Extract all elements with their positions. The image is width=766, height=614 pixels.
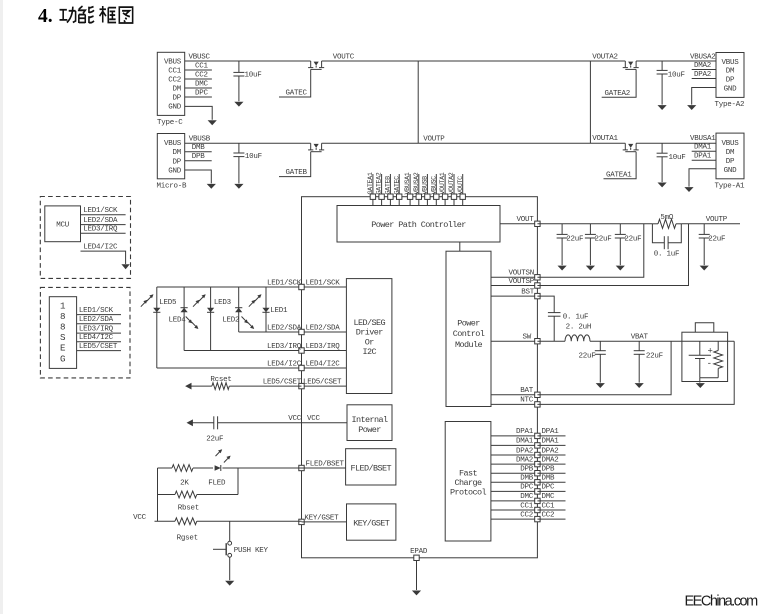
svg-text:VBUSA1: VBUSA1 (690, 135, 716, 143)
wire PPC to Power Control link (459, 242, 461, 251)
svg-text:DMA2: DMA2 (542, 456, 559, 464)
block MCU (45, 206, 81, 242)
net stub DMA2 external (537, 463, 565, 465)
svg-text:DPC: DPC (542, 484, 556, 492)
svg-text:DPC: DPC (195, 89, 209, 97)
svg-text:DMA1: DMA1 (542, 438, 560, 446)
node junction VOUTP vertical (417, 61, 419, 143)
wire DMC internal (491, 500, 538, 502)
pin CC1 (right) (535, 507, 540, 512)
wire CC1 internal (491, 509, 538, 511)
svg-text:DP: DP (172, 95, 181, 103)
svg-text:Type-C: Type-C (157, 119, 183, 127)
pin VOUTA2 (top) (453, 174, 455, 194)
wire VOUTP rail (322, 142, 626, 144)
node junction VOUTA2 vertical (589, 61, 591, 143)
net stub DMA1 external (537, 444, 565, 446)
wire VOUT internal (500, 223, 537, 225)
wire VOUTSN internal (491, 276, 537, 278)
svg-text:LED5/CSET: LED5/CSET (303, 379, 342, 387)
pin SW (right) (535, 339, 540, 344)
connector Type-A1 (716, 133, 744, 179)
ground push key (225, 581, 234, 586)
pin VBUSA2 (top) (418, 174, 420, 194)
resistor 2K (172, 465, 193, 472)
svg-text:22uF: 22uF (708, 235, 725, 243)
net stub DPB (185, 160, 212, 162)
svg-text:BST: BST (521, 288, 535, 296)
block U6 KEY/GSET (347, 504, 396, 540)
svg-text:LED1/SCK: LED1/SCK (267, 279, 302, 287)
svg-text:LED/SEG: LED/SEG (353, 318, 385, 328)
pin DMA2 (right) (535, 461, 540, 466)
net stub MCU LED1/SCK (81, 214, 126, 216)
transistor pass-FET GATEC (310, 61, 312, 67)
svg-text:2K: 2K (180, 479, 189, 487)
net stub DMA2 (692, 69, 716, 71)
net stub DMC external (537, 500, 565, 502)
svg-text:LED5: LED5 (159, 299, 177, 307)
svg-text:VBUSA2: VBUSA2 (413, 172, 421, 194)
svg-text:Power Path Controller: Power Path Controller (371, 220, 466, 230)
capacitor 22uF VBAT 2 (638, 341, 640, 351)
wire DPA1 internal (491, 435, 538, 437)
svg-text:Internal: Internal (351, 415, 388, 425)
svg-text:MCU: MCU (56, 222, 69, 230)
pin KEY/GSET (left) (299, 519, 304, 524)
svg-text:VOUT: VOUT (516, 216, 534, 224)
svg-text:CC1: CC1 (542, 502, 556, 510)
LED FLED (215, 465, 221, 471)
net stub DMB external (537, 481, 565, 483)
svg-text:EEChina.com: EEChina.com (685, 594, 759, 610)
LED D5 (153, 308, 160, 313)
svg-text:DMA2: DMA2 (694, 62, 711, 70)
svg-text:DMC: DMC (542, 493, 556, 501)
svg-text:22uF: 22uF (206, 436, 223, 444)
svg-text:GND: GND (724, 167, 738, 175)
net stub SEG LED3/IRQ (77, 332, 121, 334)
svg-text:DPA2: DPA2 (516, 447, 533, 455)
pin VBUSB (top) (426, 174, 428, 194)
net stub DPA2 (692, 78, 716, 80)
transistor pass-FET GATEB (310, 143, 312, 149)
ground cap Micro-B (234, 184, 243, 189)
wire LED2/SDA rail (239, 331, 302, 333)
svg-text:DMB: DMB (192, 144, 206, 152)
svg-text:DPA1: DPA1 (542, 428, 560, 436)
svg-text:2. 2uH: 2. 2uH (566, 324, 592, 332)
svg-text:VBUSA1: VBUSA1 (404, 172, 412, 194)
ground VBAT cap 1 (596, 383, 605, 388)
wire FLED/BSET external (158, 467, 173, 469)
svg-text:CC2: CC2 (520, 511, 533, 519)
wire VCC internal (302, 422, 348, 424)
svg-text:VOUTP: VOUTP (423, 136, 445, 144)
svg-text:8: 8 (60, 322, 66, 333)
LED column 3 (210, 287, 212, 351)
resistor Rcset (212, 383, 229, 390)
svg-text:Protocol: Protocol (450, 488, 487, 498)
svg-text:DPB: DPB (542, 466, 556, 474)
net stub SEG LED1/SCK (77, 314, 121, 316)
capacitor 22uF VBAT 1 (599, 341, 601, 351)
block U3 LED/SEG Driver (346, 279, 392, 394)
net stub DPA2 external (537, 454, 565, 456)
ground out cap 1 (558, 266, 567, 271)
wire VBAT rail (590, 340, 734, 342)
svg-text:DPA2: DPA2 (542, 447, 559, 455)
svg-text:1: 1 (60, 300, 66, 311)
svg-text:EPAD: EPAD (410, 548, 428, 556)
wire Type-A1 GND (689, 169, 716, 187)
pin EPAD (bottom) (414, 555, 419, 560)
pin VOUT (right) (535, 221, 540, 226)
svg-text:VOUTP: VOUTP (706, 216, 728, 224)
svg-text:I2C: I2C (362, 347, 376, 357)
svg-text:LED4/I2C: LED4/I2C (306, 360, 341, 368)
capacitor 0.1uF bootstrap (548, 312, 561, 314)
wire LED4/I2C rail (157, 367, 302, 369)
svg-text:Rgset: Rgset (177, 534, 198, 542)
wire LED4/I2C internal (302, 367, 347, 369)
pin DPB (right) (535, 471, 540, 476)
wire SW internal (491, 340, 537, 342)
pin FLED/BSET (left) (299, 465, 304, 470)
svg-text:DPC: DPC (520, 484, 534, 492)
svg-text:BAT: BAT (520, 387, 534, 395)
svg-text:GATEA2: GATEA2 (376, 172, 384, 194)
svg-text:LED1: LED1 (270, 307, 288, 315)
wire Rbset branch (237, 468, 239, 495)
dashed box MCU module (40, 197, 130, 279)
ground EPAD (412, 591, 421, 596)
net stub DPC (185, 96, 212, 98)
svg-text:VBUSB: VBUSB (189, 135, 211, 143)
wire SW external (537, 340, 565, 342)
svg-text:KEY/GSET: KEY/GSET (304, 514, 339, 522)
svg-text:22uF: 22uF (566, 235, 583, 243)
pin LED3/IRQ (left) (299, 348, 304, 353)
net stub DMB (185, 151, 212, 153)
svg-text:22uF: 22uF (595, 235, 612, 243)
net stub SEG LED4/I2C (77, 341, 121, 343)
svg-text:NTC: NTC (520, 397, 534, 405)
wire VBUSA1 into Type-A1 (636, 142, 716, 144)
svg-text:DMB: DMB (520, 475, 534, 483)
block 188SEG digit (49, 297, 76, 369)
net stub SEG LED5/CSET (77, 350, 121, 352)
LED D1 (262, 308, 269, 313)
resistor Rgset (175, 518, 197, 525)
svg-text:Or: Or (365, 337, 375, 347)
ground out cap 2 (586, 266, 595, 271)
wire LED1/SCK internal (302, 286, 347, 288)
svg-text:LED2/SDA: LED2/SDA (79, 316, 114, 324)
pin DMB (right) (535, 480, 540, 485)
LED column 5 (265, 287, 267, 332)
pin CC2 (right) (535, 516, 540, 521)
wire LED5/CSET internal (302, 385, 347, 387)
pin LED1/SCK (left) (299, 284, 304, 289)
svg-text:Micro-B: Micro-B (157, 182, 188, 190)
svg-text:LED1/SCK: LED1/SCK (79, 307, 114, 315)
svg-text:FLED/BSET: FLED/BSET (306, 460, 345, 468)
svg-text:+: + (708, 346, 713, 356)
pin VOUTC (top) (462, 174, 464, 194)
svg-text:0. 1uF: 0. 1uF (563, 313, 589, 321)
pin DPA1 (right) (535, 433, 540, 438)
svg-text:GND: GND (724, 86, 738, 94)
pin LED4/I2C (left) (299, 365, 304, 370)
svg-text:E: E (60, 343, 66, 354)
wire DPA2 internal (491, 454, 538, 456)
svg-text:VBUSA2: VBUSA2 (690, 53, 716, 61)
wire LED1/SCK rail (157, 286, 302, 288)
svg-text:-: - (707, 359, 712, 369)
pin LED2/SDA (left) (299, 329, 304, 334)
svg-text:FLED/BSET: FLED/BSET (350, 464, 391, 474)
svg-text:LED1/SCK: LED1/SCK (83, 207, 118, 215)
svg-text:VOUTA2: VOUTA2 (592, 53, 618, 61)
LED D2 (235, 308, 242, 313)
block U5 FLED/BSET (346, 449, 396, 485)
pin GATEB (top) (389, 174, 391, 194)
svg-text:GATEA2: GATEA2 (605, 90, 631, 98)
svg-text:VCC: VCC (288, 415, 302, 423)
wire VOUT rail (537, 223, 652, 225)
svg-text:VBUS: VBUS (721, 59, 739, 67)
wire CC2 internal (491, 518, 538, 520)
pin NTC (right) (535, 402, 540, 407)
IC chip boundary (302, 197, 538, 558)
wire left bus FLED (157, 468, 159, 521)
svg-text:LED2/SDA: LED2/SDA (306, 324, 341, 332)
wire FLED/BSET internal (302, 467, 346, 469)
svg-text:VOUTC: VOUTC (333, 53, 355, 61)
svg-text:DPA1: DPA1 (694, 153, 712, 161)
svg-text:VOUTA1: VOUTA1 (592, 135, 618, 143)
svg-text:VBUS: VBUS (164, 140, 182, 148)
pin BAT (right) (535, 392, 540, 397)
svg-text:GATEB: GATEB (286, 169, 308, 177)
block U4 Internal Power (347, 405, 392, 441)
ground cap Type-C (234, 102, 243, 107)
svg-text:VBUSC: VBUSC (430, 176, 438, 195)
svg-text:10uF: 10uF (245, 71, 262, 79)
svg-text:VBUS: VBUS (721, 140, 739, 148)
ground out cap 3 (616, 266, 625, 271)
net stub DMC (185, 87, 212, 89)
capacitor 22uF VOUTP (703, 224, 705, 235)
wire VBUSA2 into Type-A2 (636, 60, 716, 62)
net stub DMA1 (692, 150, 716, 152)
transistor pass-FET GATEA2 (624, 61, 626, 67)
wire VOUTSP internal (491, 285, 537, 287)
svg-text:22uF: 22uF (624, 235, 641, 243)
wire NTC internal (491, 403, 537, 405)
ground VOUTP cap (700, 266, 709, 271)
svg-text:5mΩ: 5mΩ (660, 214, 674, 222)
svg-text:DP: DP (726, 158, 735, 166)
ground Micro-B GND (207, 184, 216, 189)
svg-text:LED3/IRQ: LED3/IRQ (83, 226, 118, 234)
svg-text:DMC: DMC (195, 80, 209, 88)
wire BAT external (537, 341, 671, 395)
svg-text:SW: SW (522, 333, 531, 341)
svg-text:10uF: 10uF (245, 153, 262, 161)
svg-text:DMB: DMB (542, 475, 556, 483)
connector Type-A2 (716, 53, 744, 98)
resistor battery load (717, 341, 719, 350)
svg-text:GATEC: GATEC (393, 176, 401, 195)
svg-text:Rcset: Rcset (210, 376, 231, 384)
svg-text:8: 8 (60, 311, 66, 322)
net stub DPC external (537, 490, 565, 492)
wire DMB internal (491, 481, 538, 483)
wire KEY/GSET internal (302, 521, 347, 523)
svg-text:LED3/IRQ: LED3/IRQ (267, 343, 302, 351)
svg-text:GATEB: GATEB (385, 176, 393, 195)
net stub CC2 (185, 78, 212, 80)
svg-text:LED2/SDA: LED2/SDA (267, 324, 302, 332)
wire BST external (537, 296, 554, 313)
svg-text:DMA1: DMA1 (694, 144, 712, 152)
svg-text:Power: Power (358, 425, 381, 435)
wire DMA2 internal (491, 463, 538, 465)
pin DPA2 (right) (535, 452, 540, 457)
transistor pass-FET GATEA1 (624, 143, 626, 149)
svg-text:VOUTC: VOUTC (457, 176, 465, 195)
svg-text:VOUTSN: VOUTSN (508, 270, 534, 278)
resistor Rbset (175, 491, 197, 498)
arrow LED5/CSET terminal (185, 383, 191, 390)
svg-text:DM: DM (172, 86, 181, 94)
svg-text:DP: DP (172, 158, 181, 166)
svg-text:LED3/IRQ: LED3/IRQ (306, 343, 341, 351)
svg-text:FLED: FLED (208, 479, 226, 487)
pin DMA1 (right) (535, 443, 540, 448)
svg-text:CC2: CC2 (542, 511, 555, 519)
net stub CC2 external (537, 518, 565, 520)
svg-text:CC1: CC1 (168, 68, 182, 76)
svg-text:Control: Control (453, 329, 485, 339)
svg-text:GATEC: GATEC (286, 90, 308, 98)
block U2 Power Control Module (446, 251, 491, 406)
LED column 1 (156, 287, 158, 368)
resistor 5mOhm sense (652, 223, 658, 225)
svg-text:KEY/GSET: KEY/GSET (353, 519, 390, 529)
net stub DPA1 external (537, 435, 565, 437)
wire push key branch (229, 521, 231, 541)
svg-text:VOUTSP: VOUTSP (508, 278, 534, 286)
svg-text:Power: Power (457, 318, 480, 328)
svg-text:CC1: CC1 (195, 62, 209, 70)
wire Type-C GND (185, 106, 213, 119)
wire push key to ground (229, 557, 231, 580)
svg-text:DM: DM (726, 149, 735, 157)
wire LED5/CSET external (192, 385, 212, 387)
svg-text:LED5/CSET: LED5/CSET (79, 343, 118, 351)
pin VOUTSN (right) (535, 275, 540, 280)
connector Type-C (157, 52, 184, 115)
wire VBUSC from Type-C (185, 60, 311, 62)
svg-text:Rbset: Rbset (178, 505, 199, 513)
svg-text:GND: GND (168, 168, 182, 176)
pin GATEA1 (top) (372, 174, 374, 194)
title hanzi 功能框图 (60, 6, 133, 23)
battery cell BT1 (699, 341, 701, 355)
LED column 2 (183, 287, 185, 351)
wire VOUTC rail (322, 60, 626, 62)
svg-text:22uF: 22uF (578, 353, 595, 361)
svg-text:10uF: 10uF (668, 71, 685, 79)
svg-text:LED3/IRQ: LED3/IRQ (79, 325, 114, 333)
wire BAT internal (491, 394, 537, 396)
capacitor 0.1uF across sense (652, 224, 664, 243)
svg-text:0. 1uF: 0. 1uF (654, 251, 680, 259)
pin DPC (right) (535, 489, 540, 494)
svg-text:DMA1: DMA1 (516, 438, 534, 446)
capacitor 10uF (Type-C VBUS) (238, 61, 240, 72)
wire LED3/IRQ internal (302, 350, 347, 352)
wire LED3/IRQ rail (184, 350, 301, 352)
svg-text:GND: GND (168, 104, 182, 112)
net stub DPA1 (692, 159, 716, 161)
pin VBUSA1 (top) (409, 174, 411, 194)
svg-text:DM: DM (726, 68, 735, 76)
wire LED2/SDA internal (302, 331, 347, 333)
svg-text:G: G (60, 353, 66, 364)
net stub MCU LED3/IRQ (81, 232, 126, 234)
svg-text:LED4/I2C: LED4/I2C (79, 334, 114, 342)
svg-text:CC2: CC2 (195, 71, 208, 79)
svg-text:DMC: DMC (520, 493, 534, 501)
svg-text:DPA1: DPA1 (516, 428, 534, 436)
arrow VCC terminal (187, 419, 193, 426)
pin BST (right) (535, 293, 540, 298)
svg-text:VOUTA1: VOUTA1 (439, 172, 447, 194)
ground Type-C GND (208, 120, 217, 125)
wire battery bottom (700, 377, 718, 379)
net stub MCU LED2/SDA (81, 224, 126, 226)
pin LED5/CSET (left) (299, 383, 304, 388)
arrow MCU LED4/I2C down (121, 264, 129, 269)
svg-text:VBUS: VBUS (164, 59, 182, 67)
svg-text:Type-A1: Type-A1 (715, 183, 746, 191)
svg-text:VCC: VCC (133, 514, 147, 522)
svg-text:22uF: 22uF (646, 353, 663, 361)
svg-text:VOUTA2: VOUTA2 (448, 172, 456, 194)
svg-text:DP: DP (726, 77, 735, 85)
svg-text:LED2: LED2 (222, 317, 239, 325)
wire EPAD down (416, 561, 418, 591)
svg-text:DPA2: DPA2 (694, 71, 711, 79)
wire KEY/GSET external VCC (155, 520, 176, 522)
capacitor 22uF output 1 (561, 224, 563, 235)
net stub DPB external (537, 472, 565, 474)
wire gate GATEB (279, 152, 311, 177)
wire gate GATEC (279, 69, 311, 97)
inductor 2.2uH (565, 335, 590, 341)
wire VOUTSN external (537, 224, 643, 277)
wire DMA1 internal (491, 444, 538, 446)
block U1 Power Path Controller (337, 206, 500, 243)
pin VOUTSP (right) (535, 283, 540, 288)
connector Micro-B (157, 134, 184, 179)
svg-text:LED4/I2C: LED4/I2C (83, 243, 118, 251)
capacitor 22uF output 2 (589, 224, 591, 235)
